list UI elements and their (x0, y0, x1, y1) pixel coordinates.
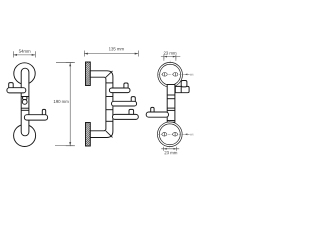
bottom circle centerline vertical (169, 121, 171, 148)
left hook bar (7, 88, 26, 93)
top circle centerline vertical (169, 61, 171, 81)
post between flanges (167, 85, 175, 123)
bottom wall plate (86, 123, 91, 147)
dimension 190 mm (vertical) (55, 62, 75, 146)
hook 3 nub (129, 109, 134, 115)
annotation arrow top (185, 74, 188, 76)
top circle centerline horizontal (157, 73, 186, 75)
bottom circle centerline horizontal (157, 133, 186, 135)
left hook bar nub (9, 83, 14, 89)
right hook bar (24, 115, 47, 120)
top flange screw slots (162, 73, 167, 77)
top flange outer circle (158, 62, 183, 87)
bottom elbow miter line (106, 131, 113, 138)
left hook nub (151, 107, 154, 113)
top wall plate (86, 62, 91, 86)
hook 2 bar (112, 101, 137, 106)
top mounting circle (14, 63, 35, 84)
stem (21, 68, 29, 136)
annotation arrow bottom (185, 133, 188, 135)
slot in stem (23, 97, 28, 100)
bottom flange inner circle (159, 124, 180, 145)
bottom flange screw slots (162, 133, 167, 137)
screw circle in stem (22, 100, 27, 105)
dimension 23 mm (bottom of right view) (161, 147, 179, 151)
hook 2 nub (131, 97, 135, 103)
hook 1 nub (124, 83, 128, 89)
post joint lines (167, 94, 175, 96)
right stub hook bar (175, 86, 189, 92)
joint line under left hook (21, 96, 29, 98)
dimension 135 mm (top of middle view) (84, 51, 138, 57)
hook 3 bar (113, 114, 139, 119)
left hook bar (146, 112, 168, 117)
bottom flange outer circle (157, 122, 182, 147)
hook 1 bar (109, 88, 130, 93)
bottom mounting circle (14, 125, 36, 147)
dimension 23 mm (top of right view) (161, 55, 180, 61)
right stub hook nub (181, 81, 187, 87)
post joint lines (106, 82, 113, 84)
top elbow miter line (106, 71, 113, 77)
dimension 54mm (top of left view) (13, 51, 35, 57)
top flange inner circle (160, 64, 181, 85)
right hook nub (42, 109, 45, 115)
C-shaped arm and post (90, 71, 113, 138)
joint collar double lines (21, 107, 29, 109)
